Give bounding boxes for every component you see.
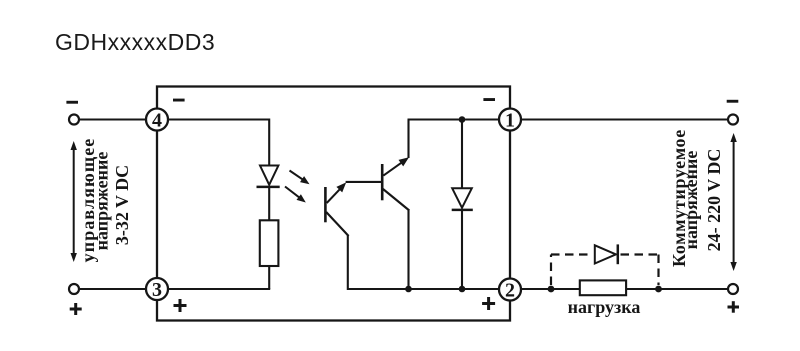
junction: snubber left node <box>548 286 555 293</box>
title text GDHxxxxxDD3 <box>55 29 215 56</box>
svg-text:напряжение: напряжение <box>92 152 112 251</box>
svg-text:3-32 V DC: 3-32 V DC <box>112 165 132 245</box>
minus label inside box near pin 1 <box>483 98 495 101</box>
svg-text:напряжение: напряжение <box>681 151 701 250</box>
plus label at output terminal <box>728 306 740 309</box>
svg-text:нагрузка: нагрузка <box>568 297 641 317</box>
dashed freewheeling diode branch <box>550 255 552 286</box>
output voltage range arrow <box>733 139 735 265</box>
wire: LED cathode to resistor <box>268 187 270 220</box>
output transistor Q2 <box>381 164 384 200</box>
plus label inside box near pin 2 <box>482 302 495 305</box>
junction: snubber right node <box>655 286 662 293</box>
minus label at output terminal <box>727 100 739 103</box>
svg-text:24- 220 V DC: 24- 220 V DC <box>704 149 724 252</box>
load resistor <box>580 280 626 295</box>
input minus terminal <box>69 115 79 125</box>
junction: diode bottom on rail <box>459 286 466 293</box>
phototransistor Q1 <box>324 187 327 222</box>
minus label inside box near pin 4 <box>173 99 185 102</box>
LED light emission arrow 1 <box>290 171 306 182</box>
plus label inside box near pin 3 <box>174 304 187 307</box>
pin 2 <box>499 279 521 301</box>
input plus terminal <box>69 284 79 294</box>
svg-text:4: 4 <box>152 110 162 132</box>
LED (input light emitting diode) <box>260 166 278 185</box>
wire: Q2 lower lead to bottom rail <box>407 210 409 290</box>
wire: pin 3 to resistor branch <box>168 288 270 290</box>
wire: Q1 lower lead down to bottom rail <box>347 235 349 290</box>
wire: resistor bottom lead <box>268 266 270 289</box>
output plus terminal <box>728 284 738 294</box>
svg-text:3: 3 <box>152 279 162 301</box>
junction: Q2 emitter on bottom rail <box>405 286 412 293</box>
resistor (input series resistor) <box>260 220 279 266</box>
device outline box <box>157 87 510 321</box>
internal protection diode <box>461 120 463 189</box>
wire: pin 4 to LED branch <box>168 118 269 120</box>
freewheeling diode <box>595 245 616 263</box>
wire: bottom rail from Q1 to pin 2 <box>348 288 500 290</box>
svg-text:1: 1 <box>505 110 515 132</box>
plus label at input terminal <box>70 308 82 311</box>
minus label at input terminal <box>66 101 78 104</box>
wire: pin 2 to output plus terminal <box>521 288 728 290</box>
input voltage range arrow <box>73 147 75 256</box>
LED light emission arrow 2 <box>285 187 302 200</box>
wire: Q2 upper lead to top rail <box>407 120 409 159</box>
junction: diode top on rail <box>459 116 466 123</box>
wire: left input minus terminal to pin 4 <box>79 118 146 120</box>
wire: left input plus terminal to pin 3 <box>79 288 146 290</box>
wire: LED branch vertical top lead <box>268 119 270 166</box>
output minus terminal <box>728 115 738 125</box>
svg-text:2: 2 <box>505 280 515 302</box>
pin 3 <box>146 278 168 300</box>
pin 4 <box>146 109 168 131</box>
wire: top rail from Q2 to pin 1 <box>408 118 501 120</box>
wire: pin 1 to output minus terminal <box>521 118 728 120</box>
pin 1 <box>499 109 521 131</box>
